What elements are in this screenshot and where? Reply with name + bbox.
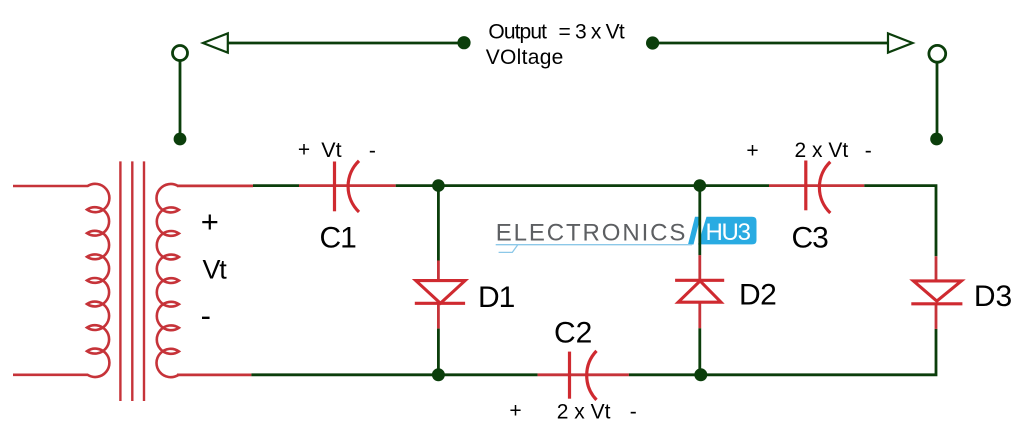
wire terminal left [179, 61, 182, 140]
arrow left [203, 33, 228, 52]
wire terminal right [936, 62, 939, 139]
junction node top-right [694, 179, 707, 192]
logo slash [688, 217, 701, 245]
svg-text:-: - [201, 298, 211, 333]
node arrow-left end dot [457, 36, 470, 49]
svg-text:C3: C3 [792, 222, 829, 255]
capacitor C1 [320, 161, 360, 255]
svg-text:+: + [509, 400, 521, 423]
terminal right dot [930, 133, 943, 146]
wire D1 cathode lead red [437, 303, 440, 328]
output terminal left circle [173, 46, 188, 61]
wire red through C3 [769, 184, 864, 187]
junction node bottom-right [694, 368, 707, 381]
diode D1 [415, 281, 465, 304]
output terminal right circle [929, 45, 946, 62]
svg-text:D3: D3 [974, 280, 1012, 313]
svg-text:Vt: Vt [321, 138, 341, 162]
wire D3 cathode lead red [935, 304, 938, 329]
terminal left dot [174, 133, 187, 146]
Electronics Hub watermark logo [496, 217, 757, 253]
wire secondary top red [177, 184, 253, 187]
diode D2 [675, 280, 724, 302]
wire D3 anode lead red [935, 256, 938, 281]
wire arrow left shaft [228, 42, 464, 45]
wire D2 branch top green [698, 186, 701, 256]
svg-text:C1: C1 [320, 222, 357, 255]
svg-text:2 x Vt: 2 x Vt [795, 139, 849, 162]
logo HUB box [698, 217, 757, 245]
svg-text:-: - [630, 401, 637, 424]
wire arrow right shaft [653, 42, 889, 45]
wire D2 branch bottom green [698, 328, 701, 375]
svg-text:D1: D1 [478, 281, 515, 314]
wire D1 anode lead red [437, 261, 440, 281]
node arrow-right start dot [646, 36, 659, 49]
wire D1 branch bottom green [437, 329, 440, 375]
wire red through C2 [538, 373, 629, 376]
svg-text:2 x Vt: 2 x Vt [557, 400, 611, 423]
wire green bottom right-middle [629, 373, 701, 376]
wire D1 branch top green [437, 186, 440, 261]
svg-text:D2: D2 [739, 279, 776, 312]
wire green top-right + right rail top [864, 186, 936, 257]
wire green bottom-left [251, 373, 438, 376]
wire red through C1 [299, 184, 396, 187]
junction node bottom-left [432, 368, 445, 381]
wire D2 cathode lead red [698, 255, 701, 280]
logo underline [496, 244, 692, 246]
wire secondary bottom red [177, 373, 251, 376]
core line 2 [131, 161, 133, 401]
diode D3 [911, 281, 962, 304]
svg-text:= 3 x Vt: = 3 x Vt [559, 20, 625, 43]
core line 3 [143, 161, 145, 401]
svg-text:-: - [865, 140, 872, 163]
svg-text:Vt: Vt [203, 255, 228, 285]
svg-text:Output: Output [488, 20, 547, 43]
core line 1 [119, 161, 121, 401]
capacitor C3 [792, 161, 831, 255]
svg-text:-: - [369, 140, 376, 163]
capacitor C2 [554, 317, 597, 400]
arrow right [888, 33, 913, 52]
wire green bottom-right + right rail bottom [701, 329, 936, 375]
wire D2 anode lead red [698, 302, 701, 328]
wire green top-left [253, 184, 299, 187]
svg-text:+: + [201, 204, 219, 239]
wire green top middle [396, 184, 769, 187]
transformer T1 [13, 161, 179, 401]
junction node top-left [432, 179, 445, 192]
wire green bottom left-middle [438, 373, 537, 376]
svg-text:+: + [298, 139, 310, 162]
svg-text:+: + [746, 139, 758, 162]
svg-text:C2: C2 [554, 317, 592, 350]
svg-text:VOltage: VOltage [486, 46, 564, 69]
svg-text:ELECTRONICS: ELECTRONICS [496, 219, 688, 246]
primary winding with top and bottom leads [13, 184, 109, 377]
svg-text:HU3: HU3 [706, 219, 751, 246]
secondary winding [157, 184, 179, 377]
